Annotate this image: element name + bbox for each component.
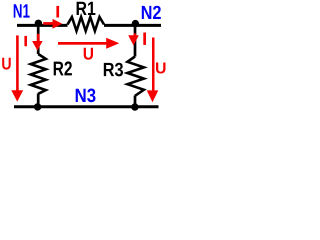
wire right vertical lead from R3 to bottom rail — [134, 96, 137, 108]
wire top right segment (R1 to N2 and right stub) — [104, 24, 161, 27]
current arrow I into R3 (points down) — [128, 33, 139, 45]
current label I (right, at R3 input) — [143, 33, 146, 45]
current arrow I into R2 (points down) — [32, 34, 43, 51]
junction dot at node N1 — [35, 20, 42, 27]
resistor label R1 — [77, 2, 96, 15]
wire right vertical lead from N2 dot into R3 — [134, 24, 137, 57]
voltage label U (left, across R2) — [2, 58, 11, 70]
voltage label U (middle, across R1) — [84, 48, 93, 60]
node label N2 — [142, 6, 161, 19]
resistor R3 (vertical zigzag) — [127, 57, 143, 96]
wire left vertical lead from N1 dot into R2 — [37, 24, 40, 55]
resistor label R2 — [54, 61, 72, 75]
voltage label U (right, across R3) — [156, 63, 166, 74]
wire top left segment (N1 to R1) — [17, 24, 68, 27]
current label I (top, at R1 input) — [56, 6, 59, 18]
resistor R2 (vertical zigzag) — [31, 54, 46, 94]
voltage arrow U across R1 (middle, points right) — [58, 38, 119, 49]
node label N3 — [76, 89, 96, 103]
resistor R1 (horizontal zigzag) — [68, 17, 105, 31]
voltage arrow U across R3 (right, points down) — [147, 38, 159, 103]
junction dot at node N2 — [132, 20, 139, 27]
wire bottom (node N3 rail) — [14, 105, 159, 108]
resistor label R3 — [104, 63, 123, 77]
wire left vertical lead from R2 to bottom rail — [37, 94, 40, 108]
voltage arrow U across R2 (left, points down) — [11, 35, 23, 101]
junction dot bottom right (R3 to N3 rail) — [131, 103, 138, 110]
junction dot bottom left (R2 to N3 rail) — [34, 103, 41, 110]
current arrow I into R1 (points right) — [43, 19, 62, 29]
current label I (left, at R2 input) — [24, 36, 27, 46]
node label N1 — [14, 4, 30, 17]
